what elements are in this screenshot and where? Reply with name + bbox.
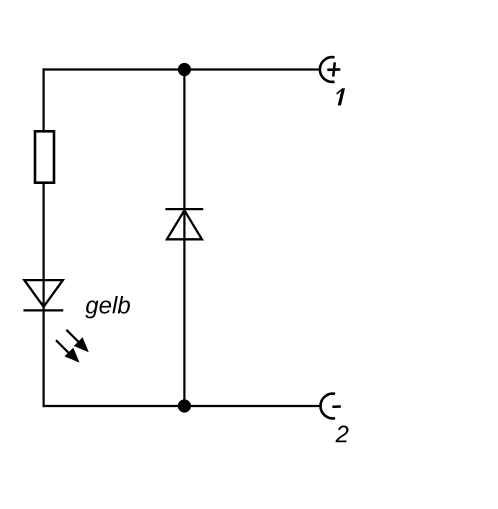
resistor R1: [35, 131, 54, 182]
pin label 2: [335, 426, 348, 443]
junction node top: [178, 63, 191, 76]
terminal 1 (+): [320, 57, 340, 82]
junction node bottom: [178, 399, 191, 412]
LED D1 (gelb): [23, 280, 63, 310]
pin label 1: [336, 88, 345, 105]
LED light arrow 2: [56, 340, 80, 362]
terminal 2 (-): [320, 394, 340, 419]
wire bottom horizontal: [43, 405, 322, 407]
wire top horizontal: [43, 68, 321, 70]
wire left vertical: [42, 68, 44, 407]
diode D2: [165, 209, 203, 239]
label gelb: [85, 296, 130, 318]
LED light arrow 1: [66, 330, 88, 352]
wire middle vertical: [183, 70, 185, 407]
